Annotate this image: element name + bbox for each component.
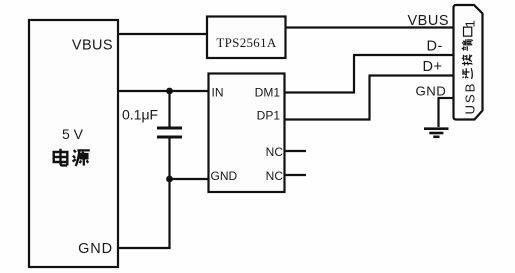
svg-text:1: 1 — [463, 20, 478, 27]
svg-text:IN: IN — [212, 86, 224, 100]
svg-text:0.1μF: 0.1μF — [122, 107, 158, 123]
svg-text:5 V: 5 V — [62, 126, 84, 142]
wire DM1: U2 to riser — [285, 91, 356, 93]
ground lead down — [437, 98, 439, 127]
IC U1 TPS2561A box — [207, 17, 286, 59]
IC U2 box (IN / DM1 / DP1 / NC / GND) — [209, 74, 285, 193]
svg-text:D+: D+ — [423, 59, 443, 75]
wire VBUS: power supply to TPS2561A — [118, 33, 207, 35]
junction node at capacitor top — [166, 88, 173, 95]
wire GND: junction down to power supply GND — [168, 179, 170, 248]
svg-text:VBUS: VBUS — [72, 38, 113, 54]
USB connector J1 body (USB连接端口1) — [454, 5, 483, 120]
capacitor C1 bottom lead — [168, 139, 170, 180]
svg-text:DP1: DP1 — [257, 109, 281, 123]
svg-text:USB: USB — [463, 82, 478, 115]
svg-text:TPS2561A: TPS2561A — [216, 35, 277, 50]
junction node at capacitor bottom — [166, 176, 173, 183]
wire D- to USB port — [353, 54, 453, 56]
capacitor C1 plates — [157, 128, 182, 137]
wire DP1: U2 to riser — [285, 118, 371, 120]
svg-text:NC: NC — [266, 145, 284, 159]
wire D+ to USB port — [369, 74, 454, 76]
value label 电源 (power source, CJK drawn as strokes) — [54, 149, 68, 166]
svg-text:GND: GND — [211, 169, 238, 183]
capacitor C1 top lead — [168, 91, 170, 127]
wire GND: junction to U2 GND pin — [170, 178, 209, 180]
connector label 连 (rotated CJK) — [463, 68, 473, 79]
svg-text:GND: GND — [416, 84, 447, 99]
pin stub NC lower — [285, 174, 307, 176]
wire GND stub to USB port — [438, 97, 454, 99]
svg-text:DM1: DM1 — [255, 86, 281, 100]
connector label 端 (rotated CJK) — [462, 39, 473, 51]
svg-text:GND: GND — [78, 241, 113, 257]
svg-text:NC: NC — [266, 169, 284, 183]
wire VBUS: TPS2561A to USB port — [286, 26, 454, 28]
svg-text:VBUS: VBUS — [408, 13, 450, 29]
wire D- riser — [353, 55, 355, 94]
ground symbol — [424, 127, 449, 130]
wire GND: power supply GND pin — [118, 247, 171, 249]
wire IN: power supply VBUS rail to U2 IN — [118, 90, 209, 92]
connector label 口 (rotated CJK) — [464, 27, 472, 36]
power supply box PS1 (5V 电源) — [29, 20, 118, 267]
connector label 接 (rotated CJK) — [462, 55, 472, 66]
wire D+ riser — [368, 76, 370, 121]
svg-text:D-: D- — [427, 39, 443, 55]
pin stub NC upper — [285, 150, 307, 152]
